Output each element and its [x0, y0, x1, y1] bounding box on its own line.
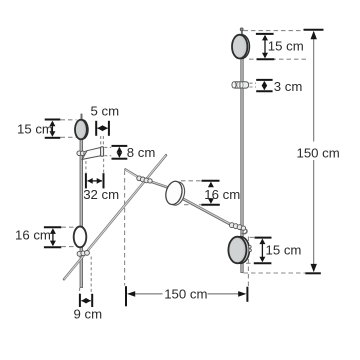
- svg-text:15 cm: 15 cm: [17, 122, 53, 137]
- svg-text:5 cm: 5 cm: [91, 104, 120, 119]
- svg-text:9 cm: 9 cm: [74, 307, 103, 322]
- svg-text:3 cm: 3 cm: [274, 79, 303, 94]
- svg-text:32 cm: 32 cm: [83, 187, 119, 202]
- svg-text:15 cm: 15 cm: [266, 242, 302, 257]
- svg-text:8 cm: 8 cm: [127, 145, 156, 160]
- svg-text:16 cm: 16 cm: [204, 187, 240, 202]
- svg-text:150 cm: 150 cm: [297, 146, 340, 161]
- svg-text:150 cm: 150 cm: [164, 287, 207, 302]
- svg-text:16 cm: 16 cm: [15, 228, 51, 243]
- svg-text:15 cm: 15 cm: [268, 39, 304, 54]
